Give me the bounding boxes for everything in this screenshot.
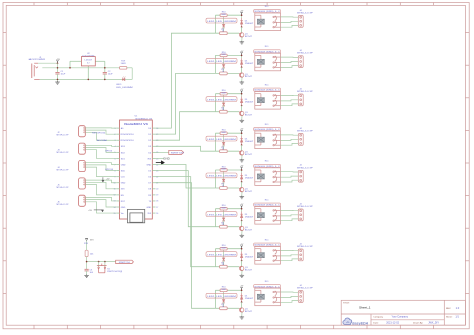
svg-text:1k: 1k: [222, 149, 224, 151]
svg-text:RST/GPIO16: RST/GPIO16: [92, 132, 106, 134]
svg-text:SONGLE (SRD)_6_C: SONGLE (SRD)_6_C: [254, 90, 280, 92]
svg-text:MTGF-0.5 9P: MTGF-0.5 9P: [57, 135, 70, 137]
svg-text:Date:: Date:: [373, 322, 379, 325]
svg-text:SONGLE (SRD)_6_C: SONGLE (SRD)_6_C: [254, 245, 280, 247]
svg-text:Company:: Company:: [373, 316, 383, 318]
svg-text:560R: 560R: [221, 54, 226, 56]
svg-text:1k: 1k: [222, 264, 224, 266]
svg-text:BTB0-5.0 3P: BTB0-5.0 3P: [297, 13, 313, 15]
svg-text:BTB0-5.0 3P: BTB0-5.0 3P: [297, 53, 313, 55]
svg-text:18: 18: [156, 201, 158, 203]
svg-text:SONGLE (SRD)_6_C: SONGLE (SRD)_6_C: [254, 129, 280, 131]
svg-text:MTGF-0.5 9P: MTGF-0.5 9P: [57, 204, 70, 206]
svg-text:SONGLE (SRD)_6_C: SONGLE (SRD)_6_C: [254, 51, 280, 53]
svg-text:RST: RST: [121, 201, 126, 203]
svg-text:SONGLE (SRD)_6_C: SONGLE (SRD)_6_C: [254, 11, 280, 13]
svg-text:1/1: 1/1: [455, 316, 459, 319]
svg-text:BC547: BC547: [245, 191, 253, 193]
svg-text:SWITCH: SWITCH: [119, 262, 131, 264]
svg-text:Sheet:: Sheet:: [446, 316, 453, 319]
svg-text:LED1_LED_LED8MM: LED1_LED_LED8MM: [207, 61, 236, 63]
svg-text:SONGLE (SRD)_6_C: SONGLE (SRD)_6_C: [254, 166, 280, 168]
svg-text:BTB0-5.0 3P: BTB0-5.0 3P: [297, 206, 313, 208]
svg-text:BC547: BC547: [245, 270, 253, 272]
svg-text:BTB0-5.0 3P: BTB0-5.0 3P: [297, 131, 313, 133]
svg-text:MTGF-0.5 9P: MTGF-0.5 9P: [57, 187, 70, 189]
svg-text:2021-12-02: 2021-12-02: [386, 322, 399, 325]
svg-text:1N4007: 1N4007: [245, 298, 255, 300]
svg-text:560R: 560R: [221, 207, 226, 209]
svg-text:GND: GND: [121, 207, 126, 209]
svg-text:1k: 1k: [222, 71, 224, 73]
svg-text:JACKPOWER: JACKPOWER: [28, 58, 46, 61]
svg-text:3V3: 3V3: [90, 240, 93, 242]
svg-text:LD1117V33: LD1117V33: [82, 55, 95, 57]
svg-text:1k: 1k: [222, 224, 224, 226]
svg-text:NODEMCU_V3: NODEMCU_V3: [136, 119, 154, 121]
svg-text:BTB0-5.0 3P: BTB0-5.0 3P: [297, 288, 313, 290]
svg-text:560R: 560R: [221, 169, 226, 171]
svg-text:3 2: 3 2: [87, 63, 90, 65]
svg-text:GND: GND: [121, 183, 126, 185]
svg-text:MTGF-0.5 9P: MTGF-0.5 9P: [57, 152, 70, 154]
svg-text:1k: 1k: [222, 186, 224, 188]
svg-text:560R: 560R: [121, 63, 126, 65]
svg-text:LED1_LED_LED8MM: LED1_LED_LED8MM: [207, 296, 236, 298]
svg-text:GPIO14: GPIO14: [105, 169, 113, 171]
svg-text:GND: GND: [146, 164, 151, 166]
svg-text:BTB0-5.0 3P: BTB0-5.0 3P: [297, 167, 313, 169]
svg-text:BC547: BC547: [245, 36, 253, 38]
svg-text:Your Company: Your Company: [392, 316, 409, 319]
svg-text:BTB0-5.0 3P: BTB0-5.0 3P: [297, 91, 313, 93]
svg-text:LD1117: LD1117: [85, 60, 93, 62]
svg-text:BC547: BC547: [245, 76, 253, 78]
svg-text:ADC0/A0: ADC0/A0: [97, 139, 108, 142]
svg-text:BC547: BC547: [245, 311, 253, 313]
svg-text:560R: 560R: [221, 247, 226, 249]
svg-text:LED1_LED_LED8MM: LED1_LED_LED8MM: [207, 176, 236, 178]
svg-text:SONGLE (SRD)_6_C: SONGLE (SRD)_6_C: [254, 205, 280, 207]
svg-text:560R: 560R: [221, 92, 226, 94]
svg-text:LED1_LED_LED8MM: LED1_LED_LED8MM: [207, 21, 236, 23]
svg-text:1N4007: 1N4007: [245, 63, 255, 65]
svg-text:GPIO4: GPIO4: [105, 151, 112, 153]
svg-text:1N4007: 1N4007: [245, 101, 255, 103]
svg-text:LED1_LED_LED8MM: LED1_LED_LED8MM: [207, 254, 236, 256]
svg-text:EN: EN: [121, 195, 124, 197]
svg-text:16: 16: [156, 213, 158, 215]
svg-text:20: 20: [156, 189, 158, 191]
svg-text:TITLE:: TITLE:: [343, 302, 350, 304]
svg-text:LED1_LED_LED8MM: LED1_LED_LED8MM: [207, 139, 236, 141]
svg-text:560R: 560R: [221, 289, 226, 291]
svg-text:1N4007: 1N4007: [245, 216, 255, 218]
svg-text:Sheet_1: Sheet_1: [359, 305, 371, 309]
svg-text:1N4007: 1N4007: [245, 23, 255, 25]
svg-text:SWITCH-T6(I): SWITCH-T6(I): [107, 271, 122, 273]
svg-text:1N4007: 1N4007: [245, 256, 255, 258]
svg-text:LED1_LED_LED8MM: LED1_LED_LED8MM: [207, 214, 236, 216]
svg-text:BC547: BC547: [245, 230, 253, 232]
svg-text:+5V: +5V: [88, 210, 92, 212]
svg-text:MTGF-0.5 9P: MTGF-0.5 9P: [57, 170, 70, 172]
svg-text:JWX_DIY: JWX_DIY: [428, 322, 439, 325]
svg-text:REV:: REV:: [446, 308, 451, 310]
svg-text:1k: 1k: [222, 306, 224, 308]
svg-text:Drawn By:: Drawn By:: [413, 322, 423, 325]
svg-text:BTB0-5.0 3P: BTB0-5.0 3P: [297, 246, 313, 248]
svg-text:RSV/GPIO16: RSV/GPIO16: [121, 140, 135, 142]
svg-text:CLK: CLK: [121, 177, 126, 179]
svg-text:EasyEDA: EasyEDA: [352, 321, 368, 325]
svg-text:1k: 1k: [222, 109, 224, 111]
svg-text:CMD: CMD: [121, 164, 126, 166]
svg-text:SONGLE (SRD)_6_C: SONGLE (SRD)_6_C: [254, 286, 280, 288]
svg-text:RSV/GPIO16: RSV/GPIO16: [121, 134, 135, 136]
svg-text:10uF: 10uF: [108, 74, 113, 76]
svg-text:LED1_LED_LED8MM: LED1_LED_LED8MM: [207, 99, 236, 101]
svg-text:BC547: BC547: [245, 154, 253, 156]
svg-text:LED_LED8MM: LED_LED8MM: [116, 87, 133, 89]
svg-text:GND: GND: [146, 207, 151, 209]
svg-text:17: 17: [156, 207, 158, 209]
svg-text:560R: 560R: [221, 132, 226, 134]
svg-text:1N4007: 1N4007: [245, 141, 255, 143]
svg-text:1k: 1k: [222, 31, 224, 33]
svg-text:NodeMCU V3: NodeMCU V3: [124, 122, 148, 126]
svg-text:560R: 560R: [221, 14, 226, 16]
svg-text:1.0: 1.0: [456, 306, 460, 310]
svg-text:19: 19: [156, 195, 158, 197]
svg-text:GND: GND: [163, 159, 170, 161]
svg-text:SWITCH: SWITCH: [171, 152, 185, 154]
svg-text:BC547: BC547: [245, 115, 253, 117]
svg-text:1N4007: 1N4007: [245, 178, 255, 180]
svg-text:10uF: 10uF: [61, 74, 66, 76]
